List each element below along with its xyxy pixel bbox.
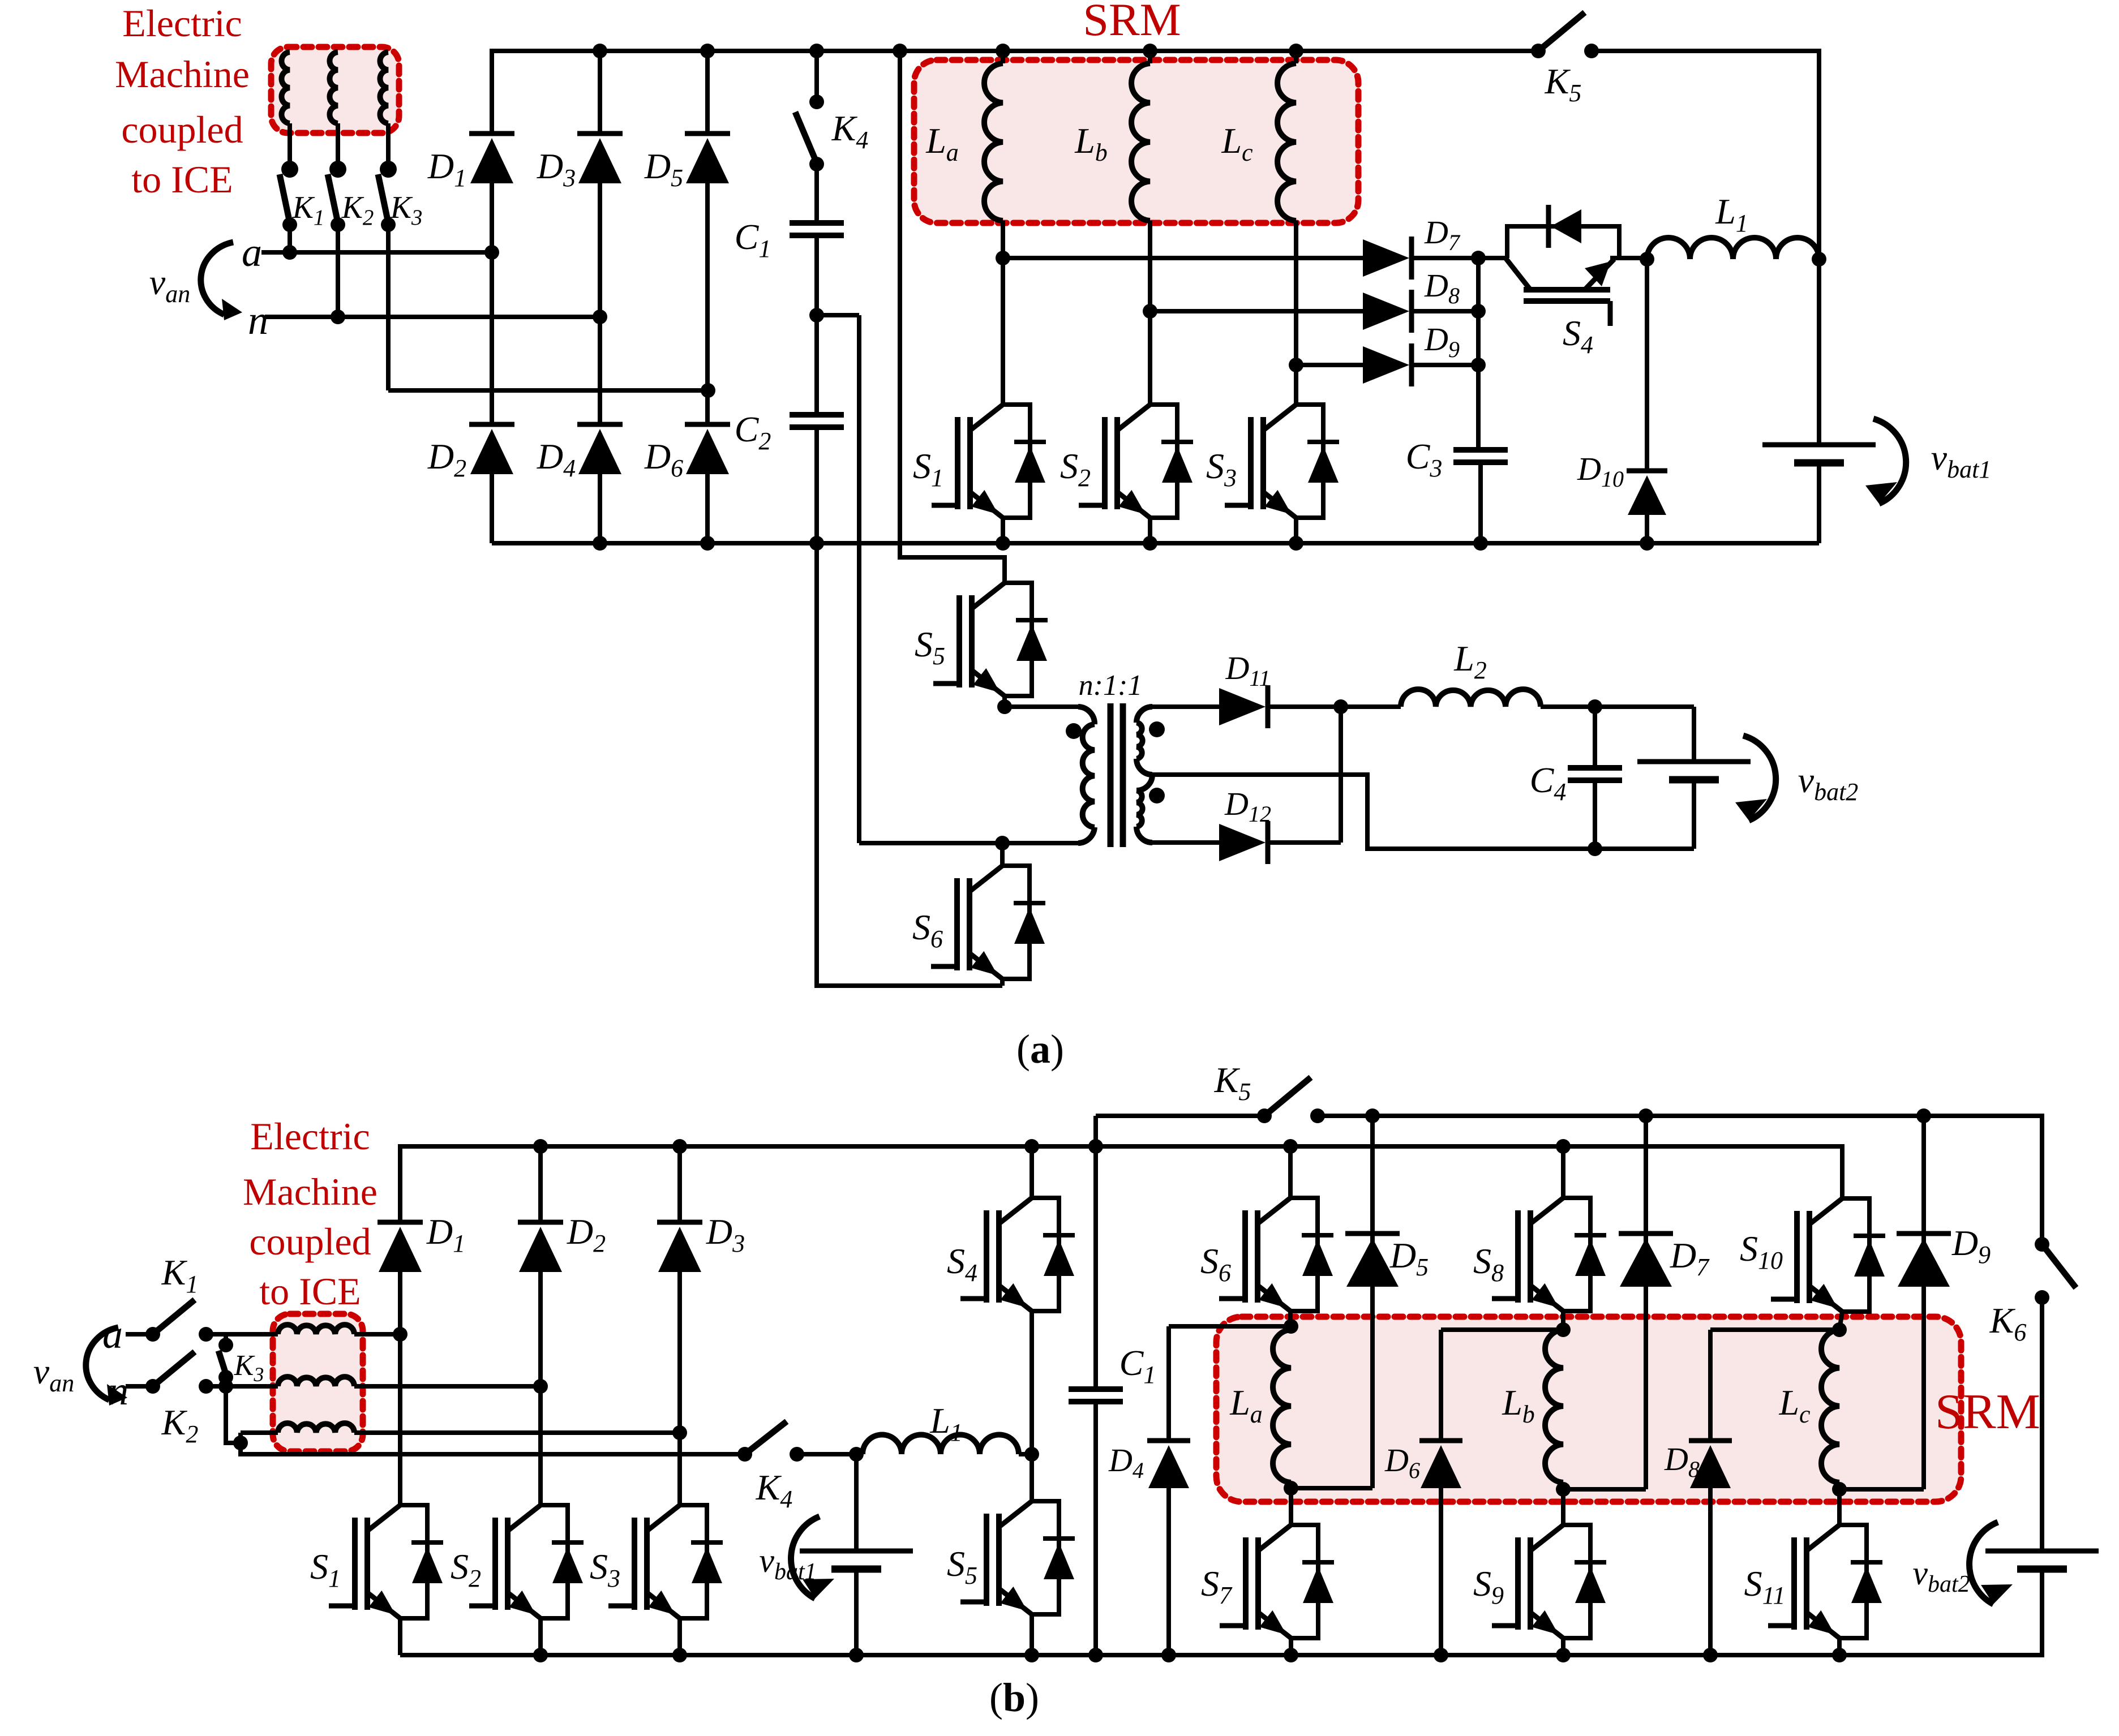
machine winding a (b) [278,1325,354,1334]
K2 branch down (b) [226,1386,241,1443]
IGBT S2 (b) [538,1386,543,1505]
diode D9 [1363,346,1409,384]
vbat1 arrow (a) [1873,419,1906,504]
transformer primary winding (a) [1078,707,1095,724]
S6 emitter return loop (a) [817,543,1002,986]
vbat2 arrow (b) [1970,1522,1998,1604]
capacitor C1 (b) [1093,1116,1098,1389]
node n wire (a) [265,315,600,319]
node a wire right (b) [354,1332,400,1337]
diode D6 (b) [1439,1330,1443,1441]
wire K3 to node b line [386,225,391,390]
switch K6 (b) [2035,1237,2049,1252]
svg-text:n: n [248,298,268,343]
inductor L1 (a) [1647,238,1819,259]
diode D7 (b) [1644,1116,1648,1489]
van arrow (b) [86,1327,118,1400]
switch K5 (a) [1531,44,1546,58]
diode D2 (b) [538,1146,543,1222]
capacitor C2 (a) [814,315,819,415]
wire D4 to La top (b) [1169,1324,1291,1329]
K5 line (b) [1096,1114,1264,1118]
top bus wire (a) [492,51,1538,134]
IGBT S8 (b) [1561,1146,1565,1198]
svg-text:Electric: Electric [122,2,242,45]
inductor L1 (b) [863,1435,1019,1455]
diode D1 [490,51,494,134]
machine winding leads (a) [288,123,292,165]
node n wire left (b) [126,1384,153,1389]
node dots phase lines (a) [484,245,499,260]
electric machine box (a) [271,47,399,133]
SRM winding La (b) [1273,1330,1291,1483]
svg-text:(a): (a) [1016,1026,1064,1072]
battery vbat2 (b) [1985,1549,2099,1554]
phase a line to D7 [996,251,1010,265]
diode D9 (b) [1921,1116,1926,1489]
transformer secondary bottom dot mark (a) [1149,788,1165,803]
switch K2 (a) [329,161,346,178]
transformer secondary top winding (a) [1136,707,1152,723]
transformer secondary bottom winding (a) [1136,775,1152,790]
node b wire (a) [388,388,708,393]
svg-text:a: a [242,230,262,275]
vbat2 arrow (a) [1743,736,1776,820]
transformer secondary top dot mark (a) [1149,721,1165,737]
diode D3 (b) [677,1146,682,1222]
svg-text:(b): (b) [989,1675,1039,1720]
bypass line to K4 (b) [241,1443,745,1454]
secondary bottom lead to D12 [1152,840,1219,845]
diode D4 (b) [1166,1326,1171,1441]
top bus wire (b) [400,1146,1842,1222]
switch K3 (a) [380,161,397,178]
inductor L2 (a) [1341,704,1401,709]
node n wire right (b) [354,1384,541,1389]
junction dots top bus (a) [593,44,607,58]
switch K3 (b) [224,1334,228,1345]
wire La bottom to D5 (b) [1291,1486,1372,1490]
wire K1 to node a [288,225,292,252]
S5 emitter node (a) [997,699,1012,714]
bottom bus wire (b) [400,1569,2042,1655]
L1 right node (a) [1812,252,1826,267]
winding 3 feed stub (b) [238,1433,243,1443]
SRM winding Lc (a) [1294,51,1298,63]
IGBT S11 (b) [1837,1489,1842,1525]
IGBT S2 (a) [1148,311,1152,405]
wire Lc bottom to D9 (b) [1839,1487,1924,1492]
svg-text:Machine: Machine [115,53,250,96]
center tap lead (a) [1152,775,1694,849]
junction dots K5 line (b) [1365,1108,1380,1123]
machine winding n (b) [278,1377,354,1386]
node a wire left (b) [126,1332,153,1337]
junction dots bottom bus (a) [593,536,607,551]
IGBT S3 (b) [677,1433,682,1505]
transformer primary dot mark (a) [1066,723,1082,739]
IGBT S10 (b) [1842,1198,1869,1312]
SRM winding La (a) [1001,51,1005,63]
svg-text:Electric: Electric [250,1115,370,1158]
wire D8 to Lc top (b) [1710,1327,1839,1332]
transformer core (a) [1108,703,1114,847]
battery vbat1 (a) [1762,442,1876,448]
IGBT S1 (b) [398,1334,402,1505]
transformer primary top lead (a) [1005,704,1078,709]
svg-text:coupled: coupled [121,108,243,151]
SRM phase box (b) [1216,1317,1961,1502]
switch K1 (a) [281,161,298,178]
wire K2 to node n [336,225,340,317]
machine winding 3 (a) [380,52,388,123]
diode D4 [577,422,623,427]
svg-text:n:1:1: n:1:1 [1079,669,1143,702]
SRM winding Lb (a) [1148,51,1152,63]
diode D12 [1219,824,1266,861]
diode cathode bus vertical (a) [1476,258,1481,450]
wire primary bottom to S6 collector (a) [1000,843,1005,866]
electric machine box (b) [273,1314,363,1451]
diode D5 [705,51,710,134]
van arrow (a) [201,242,233,315]
switch K2 (b) [145,1379,160,1394]
node n wire (b) [206,1384,278,1389]
IGBT S4 (b) [1030,1146,1034,1198]
vbat1 arrow (b) [791,1516,820,1599]
top bus wire right of K5 (a) [1592,51,1819,445]
diode D10 (a) [1645,259,1649,471]
diode D2 [469,422,514,427]
wire K6 to vbat2 (b) [2040,1297,2044,1551]
node a wire (b) [206,1332,278,1337]
wire cap midpoint to DAB return [817,313,859,317]
machine winding 2 (a) [329,52,338,123]
machine winding 1 (a) [281,52,290,123]
switch K5 (b) [1257,1108,1272,1123]
secondary top lead to D11 [1152,704,1219,709]
switch K4 (b) [737,1447,752,1462]
diode D5 (b) [1370,1116,1375,1488]
diode D7 [1363,239,1409,277]
IGBT S5 (a) [1005,583,1032,696]
svg-text:to ICE: to ICE [131,158,233,201]
wire D7 node to L1 node (a) [1640,252,1654,267]
battery vbat2 (a) [1637,759,1751,764]
diode D8 (b) [1708,1330,1713,1441]
wire D6 to Lb top (b) [1441,1327,1563,1332]
svg-text:SRM: SRM [1083,0,1181,45]
transformer primary bottom lead (a) [859,841,1078,845]
wire D12 to node X [1339,707,1343,843]
phase c line to D9 [1289,358,1303,372]
capacitor C4 (a) [1588,699,1602,714]
IGBT S3 (a) [1294,365,1298,405]
bottom bus wire (a) [492,541,1819,545]
switch K4 (a) [814,51,819,102]
SRM winding Lc (b) [1821,1330,1839,1483]
diode D3 [598,51,602,134]
diode D11 [1219,688,1266,725]
switch K1 (b) [145,1327,160,1342]
K5 line right segment (b) [1318,1116,2042,1244]
IGBT S1 (a) [1001,258,1005,405]
IGBT S6 (a) [1002,866,1030,979]
IGBT S9 (b) [1561,1489,1565,1525]
diode D1 (b) [398,1146,402,1222]
wire K4 to L1 (b) [797,1452,863,1456]
IGBT S4 horizontal with series diode (a) [1478,256,1505,260]
wire Lb bottom to D7 (b) [1563,1487,1646,1492]
battery vbat1 (b) [854,1454,859,1551]
svg-text:to ICE: to ICE [259,1270,361,1313]
svg-text:Machine: Machine [243,1170,378,1213]
node a wire (a) [261,250,492,255]
phase b line to D8 [1143,304,1157,319]
diode D6 [685,422,730,427]
capacitor C1 (a) [790,220,844,226]
IGBT S5 (b) [1030,1454,1034,1501]
IGBT S7 (b) [1289,1488,1293,1525]
SRM phase box (a) [914,60,1358,223]
IGBT S6 (b) [1288,1146,1293,1198]
node X dot (a) [1333,699,1348,714]
svg-text:coupled: coupled [249,1220,371,1263]
junction dots bottom bus (b) [533,1648,548,1662]
SRM winding Lb (b) [1545,1330,1563,1483]
junction dots top bus (b) [533,1139,548,1154]
svg-text:SRM: SRM [1935,1385,2040,1439]
diode D8 [1363,293,1409,330]
DAB supply wire from top bus (a) [900,51,1005,583]
capacitor C3 (a) [1453,447,1508,453]
machine winding c line (b) [241,1430,278,1435]
